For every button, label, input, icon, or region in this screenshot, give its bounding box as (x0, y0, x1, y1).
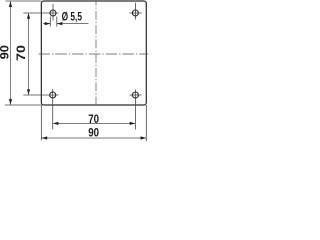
svg-text:Ø 5,5: Ø 5,5 (62, 9, 83, 23)
svg-text:90: 90 (88, 125, 99, 139)
svg-text:70: 70 (88, 112, 99, 126)
svg-text:90: 90 (0, 45, 11, 60)
svg-text:70: 70 (14, 45, 28, 61)
